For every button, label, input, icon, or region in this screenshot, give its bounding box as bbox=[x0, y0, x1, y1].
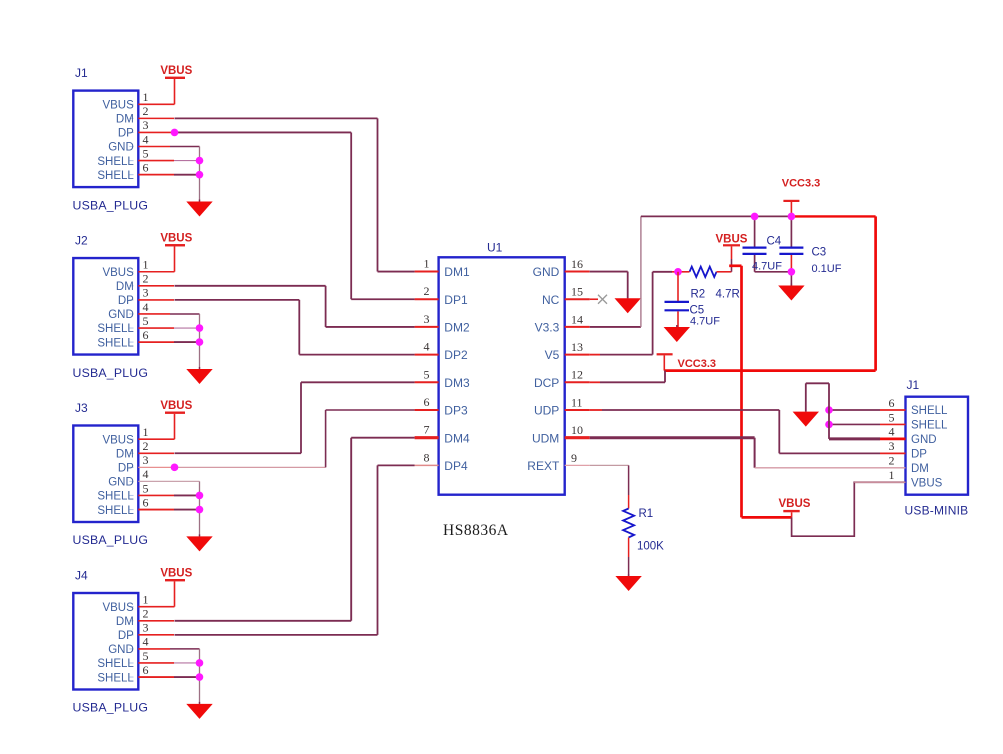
svg-text:2: 2 bbox=[889, 454, 895, 468]
svg-text:5: 5 bbox=[143, 481, 149, 495]
svg-text:1: 1 bbox=[143, 425, 149, 439]
svg-text:2: 2 bbox=[143, 607, 149, 621]
svg-text:DCP: DCP bbox=[534, 376, 559, 390]
svg-text:DM: DM bbox=[116, 448, 134, 460]
svg-text:6: 6 bbox=[143, 160, 149, 174]
svg-text:8: 8 bbox=[424, 450, 430, 464]
svg-text:SHELL: SHELL bbox=[97, 170, 134, 182]
svg-text:VBUS: VBUS bbox=[102, 602, 134, 614]
svg-text:C3: C3 bbox=[812, 246, 827, 258]
svg-text:5: 5 bbox=[143, 649, 149, 663]
svg-text:VBUS: VBUS bbox=[102, 100, 134, 112]
svg-text:4.7R: 4.7R bbox=[716, 288, 740, 300]
svg-text:SHELL: SHELL bbox=[97, 658, 134, 670]
svg-text:GND: GND bbox=[108, 142, 134, 154]
svg-text:4.7UF: 4.7UF bbox=[690, 316, 720, 328]
svg-text:2: 2 bbox=[143, 104, 149, 118]
svg-text:1: 1 bbox=[889, 468, 895, 482]
svg-text:6: 6 bbox=[889, 396, 895, 410]
svg-text:DM1: DM1 bbox=[444, 265, 470, 279]
svg-text:5: 5 bbox=[889, 410, 895, 424]
svg-text:1: 1 bbox=[143, 258, 149, 272]
svg-text:SHELL: SHELL bbox=[97, 672, 134, 684]
svg-text:SHELL: SHELL bbox=[97, 323, 134, 335]
svg-text:DP4: DP4 bbox=[444, 459, 468, 473]
svg-text:14: 14 bbox=[571, 312, 583, 326]
svg-text:9: 9 bbox=[571, 451, 577, 465]
svg-text:7: 7 bbox=[424, 423, 430, 437]
svg-text:DM: DM bbox=[116, 281, 134, 293]
svg-text:13: 13 bbox=[571, 340, 583, 354]
svg-text:DP1: DP1 bbox=[444, 293, 468, 307]
svg-text:C5: C5 bbox=[690, 304, 705, 316]
svg-text:0.1UF: 0.1UF bbox=[812, 263, 842, 275]
svg-text:USBA_PLUG: USBA_PLUG bbox=[73, 701, 149, 715]
svg-text:2: 2 bbox=[424, 284, 430, 298]
svg-text:DM2: DM2 bbox=[444, 321, 470, 335]
svg-text:DP: DP bbox=[118, 630, 134, 642]
svg-text:6: 6 bbox=[143, 328, 149, 342]
svg-text:VCC3.3: VCC3.3 bbox=[678, 358, 717, 370]
svg-text:VCC3.3: VCC3.3 bbox=[782, 178, 821, 190]
svg-text:4: 4 bbox=[889, 425, 895, 439]
svg-text:4: 4 bbox=[143, 300, 149, 314]
svg-text:V3.3: V3.3 bbox=[535, 321, 560, 335]
svg-text:GND: GND bbox=[108, 644, 134, 656]
svg-text:VBUS: VBUS bbox=[716, 233, 748, 245]
svg-text:DM: DM bbox=[911, 463, 929, 475]
svg-text:4: 4 bbox=[143, 635, 149, 649]
svg-text:J1: J1 bbox=[75, 66, 88, 80]
svg-text:UDM: UDM bbox=[532, 431, 559, 445]
svg-text:1: 1 bbox=[424, 257, 430, 271]
svg-text:4: 4 bbox=[424, 340, 430, 354]
svg-text:U1: U1 bbox=[487, 241, 503, 255]
svg-text:UDP: UDP bbox=[534, 404, 559, 418]
svg-text:DP: DP bbox=[118, 463, 134, 475]
svg-text:R1: R1 bbox=[639, 508, 654, 520]
svg-text:3: 3 bbox=[889, 439, 895, 453]
svg-text:USBA_PLUG: USBA_PLUG bbox=[73, 198, 149, 212]
svg-text:HS8836A: HS8836A bbox=[443, 522, 509, 539]
svg-text:SHELL: SHELL bbox=[97, 491, 134, 503]
svg-text:SHELL: SHELL bbox=[97, 337, 134, 349]
svg-text:VBUS: VBUS bbox=[160, 65, 192, 77]
svg-text:NC: NC bbox=[542, 293, 560, 307]
svg-text:3: 3 bbox=[143, 453, 149, 467]
svg-text:J2: J2 bbox=[75, 234, 88, 248]
svg-text:6: 6 bbox=[424, 395, 430, 409]
svg-text:USBA_PLUG: USBA_PLUG bbox=[73, 366, 149, 380]
svg-text:DM: DM bbox=[116, 616, 134, 628]
svg-text:1: 1 bbox=[143, 90, 149, 104]
svg-text:5: 5 bbox=[143, 314, 149, 328]
svg-text:12: 12 bbox=[571, 368, 583, 382]
svg-text:4.7UF: 4.7UF bbox=[752, 260, 782, 272]
svg-text:VBUS: VBUS bbox=[911, 477, 943, 489]
svg-text:SHELL: SHELL bbox=[911, 420, 948, 432]
svg-text:R2: R2 bbox=[691, 288, 706, 300]
svg-text:GND: GND bbox=[533, 265, 560, 279]
svg-text:6: 6 bbox=[143, 495, 149, 509]
svg-text:4: 4 bbox=[143, 467, 149, 481]
svg-text:J4: J4 bbox=[75, 569, 88, 583]
svg-text:DM: DM bbox=[116, 114, 134, 126]
svg-text:USB-MINIB: USB-MINIB bbox=[905, 504, 969, 518]
svg-text:VBUS: VBUS bbox=[160, 568, 192, 580]
svg-text:USBA_PLUG: USBA_PLUG bbox=[73, 533, 149, 547]
svg-text:2: 2 bbox=[143, 439, 149, 453]
svg-text:2: 2 bbox=[143, 272, 149, 286]
svg-text:3: 3 bbox=[424, 312, 430, 326]
svg-text:5: 5 bbox=[143, 146, 149, 160]
svg-text:DM4: DM4 bbox=[444, 431, 470, 445]
svg-text:C4: C4 bbox=[767, 235, 782, 247]
svg-text:100K: 100K bbox=[637, 540, 664, 552]
svg-text:J1: J1 bbox=[907, 378, 920, 392]
svg-text:SHELL: SHELL bbox=[97, 505, 134, 517]
svg-text:VBUS: VBUS bbox=[160, 400, 192, 412]
svg-text:DP: DP bbox=[118, 128, 134, 140]
svg-text:VBUS: VBUS bbox=[102, 434, 134, 446]
svg-text:15: 15 bbox=[571, 285, 583, 299]
svg-text:3: 3 bbox=[143, 286, 149, 300]
svg-text:16: 16 bbox=[571, 257, 583, 271]
svg-text:VBUS: VBUS bbox=[160, 233, 192, 245]
svg-text:GND: GND bbox=[108, 309, 134, 321]
svg-text:DP: DP bbox=[118, 295, 134, 307]
svg-text:VBUS: VBUS bbox=[779, 498, 811, 510]
svg-text:GND: GND bbox=[911, 434, 937, 446]
svg-text:GND: GND bbox=[108, 477, 134, 489]
svg-text:VBUS: VBUS bbox=[102, 267, 134, 279]
svg-text:5: 5 bbox=[424, 367, 430, 381]
svg-text:1: 1 bbox=[143, 593, 149, 607]
svg-text:11: 11 bbox=[571, 395, 583, 409]
svg-text:SHELL: SHELL bbox=[911, 405, 948, 417]
svg-text:DM3: DM3 bbox=[444, 376, 470, 390]
svg-text:6: 6 bbox=[143, 663, 149, 677]
svg-text:3: 3 bbox=[143, 621, 149, 635]
svg-text:3: 3 bbox=[143, 118, 149, 132]
svg-text:4: 4 bbox=[143, 132, 149, 146]
svg-text:REXT: REXT bbox=[527, 459, 560, 473]
svg-text:10: 10 bbox=[571, 423, 583, 437]
svg-text:J3: J3 bbox=[75, 401, 88, 415]
svg-text:V5: V5 bbox=[545, 348, 560, 362]
svg-text:DP3: DP3 bbox=[444, 404, 468, 418]
svg-text:DP: DP bbox=[911, 449, 927, 461]
svg-text:SHELL: SHELL bbox=[97, 156, 134, 168]
svg-text:DP2: DP2 bbox=[444, 348, 468, 362]
